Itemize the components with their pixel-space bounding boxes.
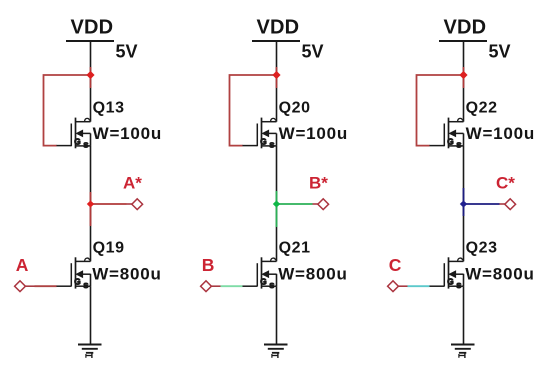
- svg-text:W=800u: W=800u: [465, 265, 535, 284]
- svg-text:B: B: [202, 255, 215, 275]
- svg-text:A*: A*: [123, 173, 142, 192]
- svg-text:VDD: VDD: [71, 17, 114, 39]
- svg-text:A: A: [16, 255, 29, 275]
- svg-text:W=100u: W=100u: [279, 124, 349, 143]
- svg-text:Q20: Q20: [279, 99, 311, 116]
- svg-text:W=800u: W=800u: [278, 265, 348, 284]
- svg-text:Q21: Q21: [279, 239, 311, 256]
- svg-text:Q13: Q13: [93, 99, 125, 116]
- svg-text:C*: C*: [496, 173, 515, 192]
- svg-text:Q23: Q23: [466, 239, 498, 256]
- svg-text:C: C: [389, 255, 402, 275]
- svg-text:VDD: VDD: [257, 17, 300, 39]
- svg-text:5V: 5V: [116, 42, 138, 62]
- svg-text:VDD: VDD: [444, 17, 487, 39]
- svg-text:Q19: Q19: [93, 239, 125, 256]
- svg-text:B*: B*: [309, 173, 328, 192]
- svg-text:5V: 5V: [489, 42, 511, 62]
- svg-text:W=100u: W=100u: [466, 124, 536, 143]
- svg-text:W=100u: W=100u: [93, 124, 163, 143]
- svg-text:5V: 5V: [302, 42, 324, 62]
- svg-text:W=800u: W=800u: [92, 265, 162, 284]
- svg-text:Q22: Q22: [466, 99, 498, 116]
